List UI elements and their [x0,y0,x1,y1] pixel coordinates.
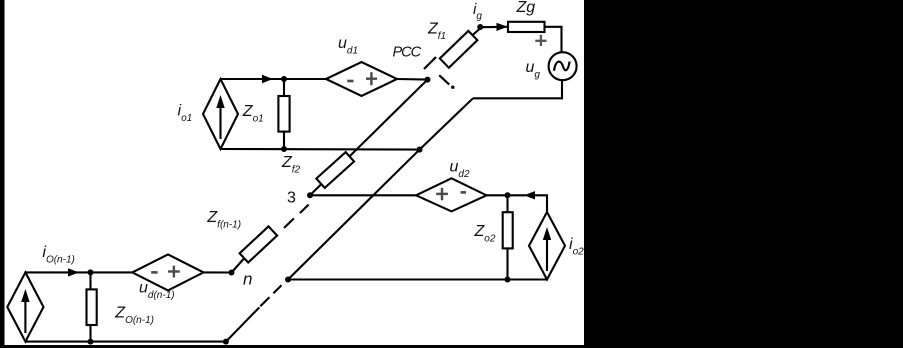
AC sine glyph [554,62,570,71]
wire feeder diagonal PCC to node 3 [310,80,428,196]
plus sign in u_d(n-1) [168,266,180,278]
wire ZO(n-1) top stub [89,272,91,289]
wire inverter(n-1) top rail [25,271,132,273]
node dot top of Zo2 [505,192,511,198]
current source i_O(n-1) [7,272,43,341]
wire node3 to ud2 [310,194,416,196]
wire return diagonal upper [288,98,473,279]
resistor Z_f(n-1) [240,226,277,262]
wire return diagonal lower [226,307,259,341]
node PCC [425,77,431,83]
black frame bottom band [0,345,903,348]
wire Zf(n-1) to node n [232,259,245,273]
svg-text:PCC: PCC [393,45,422,61]
wire return dashed segment [260,285,281,306]
wire i_g node to Zg [481,26,508,29]
black frame left band [0,0,5,348]
wire ud2 to i_o2 [487,195,548,212]
current source i_o2 [529,212,565,280]
wire Zo1 bottom stub [283,132,285,149]
arrow into node (pointing left) [524,191,535,199]
node dot top of ZO(n-1) [88,269,94,275]
dependent source u_d2 [416,178,486,211]
wire inverter1 top rail [221,78,327,80]
wire Zo2 top stub [506,195,508,212]
switch blade above PCC [424,57,436,69]
svg-text:3: 3 [287,190,296,207]
minus sign in u_d2 [461,191,466,194]
switch contact dot [451,86,454,89]
node dot top of Zo1 [281,76,287,82]
wire ud(n-1) to node n [204,271,232,273]
wire Zo1 top stub [283,79,285,96]
plus sign near grid [535,35,546,46]
wire dashed feeder node3 to Zf(n-1) [284,205,309,228]
switch tick mark [439,75,449,84]
node dot bottom of ZO(n-1) [88,339,94,345]
wire inverter1 bottom rail [221,148,420,151]
node dot return at inverter1 rail [417,147,423,153]
dependent source u_d1 [326,62,397,96]
plus sign in u_d2 [436,188,448,200]
node i_g dot [477,24,483,30]
node 3 dot [307,192,313,198]
minus sign in u_d1 [347,80,353,83]
node dot bottom of Zo1 [281,146,287,152]
arrow on inverter1 top rail [262,75,273,83]
svg-text:Zg: Zg [516,0,536,16]
arrow on inverter(n-1) top rail [68,268,79,276]
wire source bottom to return corner [473,80,562,98]
node dot rail end [223,339,229,345]
wire ZO(n-1) bottom stub [89,325,91,342]
resistor Z_O(n-1) [87,289,97,325]
resistor Z_f1 [440,28,481,68]
node dot bottom of Zo2 [505,277,511,283]
resistor Z_o1 [278,96,289,132]
dependent source u_d(n-1) [132,254,203,290]
wire Zg to source corner [545,27,562,52]
wire ud1 to PCC [397,78,428,81]
resistor Z_f2 [316,152,354,188]
wire inverter(n-1) bottom rail [25,341,226,343]
node dot return at inverter2 rail [285,277,291,283]
resistor Zg [508,22,545,32]
AC source u_g circle [549,52,577,80]
plus sign in u_d1 [366,72,377,85]
black frame right band [584,0,903,348]
current source i_o1 [203,79,238,149]
svg-text:n: n [243,270,252,289]
node n dot [229,270,235,276]
resistor Z_o2 [503,212,513,248]
wire inverter2 bottom rail [288,278,547,280]
minus sign in u_d(n-1) [151,271,157,274]
wire Zo2 bottom stub [506,248,508,279]
arrow i_g [497,23,508,31]
